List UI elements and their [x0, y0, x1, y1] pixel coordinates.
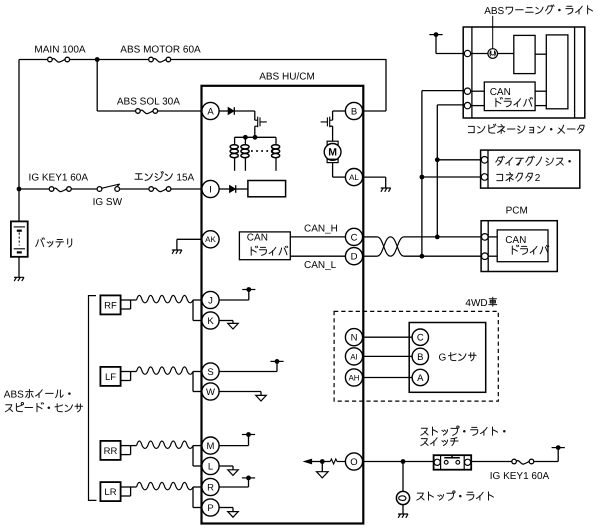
diag pin 1	[481, 157, 488, 164]
pin J of ABS HU/CM	[202, 291, 219, 308]
switch IG SW	[97, 187, 102, 192]
wire main feed top segment	[19, 59, 48, 61]
wire pin J internal feed	[219, 299, 249, 301]
wire diode to regulator	[236, 188, 248, 190]
svg-text:G: G	[439, 352, 447, 363]
wire RR coiled harness	[137, 441, 193, 448]
svg-text:AK: AK	[205, 235, 216, 244]
combination meter box	[463, 27, 585, 118]
ground arrow (pin P)	[228, 512, 239, 518]
junction CAN_H bus	[435, 235, 440, 240]
pin D of ABS HU/CM	[345, 248, 362, 265]
svg-text:LF: LF	[105, 372, 116, 383]
pin O of ABS HU/CM	[345, 453, 362, 470]
svg-text:CAN: CAN	[490, 87, 511, 98]
ground arrow (pin W)	[256, 395, 267, 401]
wire LF to pin S	[193, 371, 203, 373]
svg-text:RF: RF	[104, 300, 117, 311]
svg-text:PCM: PCM	[506, 206, 528, 217]
wire to diagnosis pin 2	[422, 176, 482, 178]
meter pin CAN2	[464, 102, 470, 108]
power feed node (pin M)	[242, 434, 255, 436]
svg-text:L: L	[208, 461, 213, 472]
svg-text:LR: LR	[104, 487, 116, 498]
svg-text:D: D	[351, 252, 358, 263]
fuse ABS SOL 30A	[140, 110, 153, 114]
svg-text:RR: RR	[104, 446, 118, 457]
wire LR branch to pin P	[192, 487, 194, 508]
wire pin K internal ground	[219, 320, 233, 322]
pin I of ABS HU/CM	[202, 180, 219, 197]
junction CAN_L bus	[420, 254, 425, 259]
transistor Q1 solenoid driver FET	[255, 117, 267, 128]
wire PCM pin1 to drv	[488, 236, 497, 238]
transistor Q2 motor driver FET	[321, 117, 333, 128]
svg-text:B: B	[351, 106, 357, 117]
meter pin CAN1	[464, 88, 470, 94]
ground chassis AL	[381, 188, 391, 192]
fuse MAIN 100A	[52, 59, 65, 63]
pin L of ABS HU/CM	[202, 457, 219, 474]
IC CAN driver (meter)	[484, 82, 535, 111]
label engine 15A	[135, 172, 173, 181]
wire AH to A	[363, 377, 413, 379]
wire RF coiled harness	[137, 295, 193, 302]
label diagnosis connector line2	[497, 173, 533, 182]
battery (batteri)	[11, 221, 28, 256]
svg-text:A: A	[207, 106, 214, 117]
junction solenoid rail / coil2	[243, 135, 248, 140]
wire LF branch to pin W	[192, 372, 194, 392]
svg-text:CAN: CAN	[505, 235, 526, 246]
pin C of ABS HU/CM	[345, 228, 362, 245]
svg-text:M: M	[328, 147, 337, 159]
wire AI to B	[363, 355, 413, 357]
wire CAN_L twisted pair	[363, 255, 377, 257]
ground chassis stop light	[398, 514, 408, 518]
power feed node (pin S)	[270, 360, 283, 362]
svg-text:N: N	[351, 333, 358, 344]
sensor RR box	[100, 441, 120, 460]
wire RF stubs	[121, 299, 137, 301]
wire CAN_H bus riser	[436, 105, 438, 237]
pin W of ABS HU/CM	[202, 383, 219, 400]
junction node ABS SOL branch	[95, 57, 100, 62]
wire solenoid rail	[235, 136, 276, 138]
svg-text:O: O	[350, 457, 357, 468]
wire switch to fuse	[471, 461, 512, 463]
junction solenoid rail / Q1	[253, 135, 258, 140]
svg-text:IG SW: IG SW	[93, 197, 123, 208]
wire pin S internal feed	[219, 371, 277, 373]
pin AI of ABS HU/CM	[345, 348, 362, 365]
wire engine fuse to pin I	[171, 188, 203, 190]
pin AH of ABS HU/CM	[345, 369, 362, 386]
meter mcu block	[546, 35, 568, 109]
4WD dashed box	[334, 311, 498, 401]
PCM pin 2	[482, 253, 489, 260]
wire MAIN to junction	[70, 59, 149, 61]
meter pin lamp	[464, 50, 470, 56]
wire pin AK to ground	[177, 238, 203, 240]
pin K of ABS HU/CM	[202, 312, 219, 329]
svg-text:B: B	[417, 352, 423, 363]
wire pin O to switch	[363, 461, 434, 463]
fuse ENGINE 15A	[154, 188, 167, 192]
sensor LF box	[100, 367, 120, 386]
svg-text:IG KEY1 60A: IG KEY1 60A	[29, 172, 89, 183]
svg-text:CAN: CAN	[247, 232, 268, 243]
svg-text:IG KEY1 60A: IG KEY1 60A	[490, 471, 550, 482]
svg-text:ABS: ABS	[484, 6, 504, 17]
label speed sensor (line2)	[5, 402, 82, 411]
wire LR stubs	[121, 486, 137, 488]
pin N of ABS HU/CM	[345, 329, 362, 346]
solenoid valve coil L2	[241, 145, 249, 149]
wire coil1 drop	[234, 137, 236, 142]
wire coil2 drop	[244, 137, 246, 142]
wire meter pin1 to CAN drv	[471, 90, 485, 92]
wire fuse to feed	[534, 461, 558, 463]
svg-text:S: S	[207, 367, 213, 378]
junction diag CAN_H	[435, 157, 440, 162]
wire pin I to diode	[219, 188, 230, 190]
power feed node (pin J)	[242, 289, 255, 291]
svg-text:AI: AI	[350, 352, 358, 361]
wire block to mcu	[535, 53, 546, 55]
svg-text:R: R	[207, 482, 214, 493]
junction stop light branch	[401, 459, 406, 464]
wire LR to pin R	[193, 486, 203, 488]
wire CAN_H twisted pair	[363, 236, 377, 238]
pin S of ABS HU/CM	[202, 363, 219, 380]
diagnosis connector box	[481, 150, 580, 188]
ground arrow O-left	[317, 472, 329, 478]
ECU box ABS HU/CM	[202, 86, 364, 524]
ground arrow (pin L)	[228, 470, 239, 476]
fuse IG KEY1 60A	[54, 188, 67, 192]
svg-text:ABS MOTOR 60A: ABS MOTOR 60A	[120, 45, 201, 56]
diode D1 (pin A)	[228, 108, 234, 115]
junction O-left ground	[320, 459, 325, 464]
svg-text:C: C	[417, 333, 424, 344]
wire RF to pin J	[193, 299, 203, 301]
ground chassis AK	[172, 250, 182, 254]
svg-text:A: A	[417, 373, 424, 384]
svg-text:W: W	[206, 387, 215, 398]
wire RR to pin M	[193, 445, 203, 447]
label diagnosis connector line1	[496, 156, 571, 165]
G sensor pin C	[412, 329, 428, 345]
wire CAN driver to pin C	[290, 236, 345, 238]
wire lamp to resistor block	[497, 53, 513, 55]
wire LR coiled harness	[137, 482, 193, 489]
svg-text:AH: AH	[348, 373, 359, 382]
svg-text:P: P	[207, 503, 213, 514]
sensor RF box	[100, 295, 120, 314]
svg-text:ABS SOL 30A: ABS SOL 30A	[117, 96, 180, 107]
wire CAN drv to mcu 1	[535, 90, 546, 92]
pin AL of ABS HU/CM	[345, 169, 362, 186]
wire motor to pin AL	[332, 163, 334, 178]
wire pin B to FET Q2	[333, 110, 346, 112]
svg-text:I: I	[209, 184, 212, 195]
motor M pump	[327, 141, 338, 144]
PCM box	[481, 221, 557, 272]
svg-text:J: J	[208, 295, 213, 306]
wire pin R internal feed	[219, 486, 248, 488]
wire pin L internal ground	[219, 465, 233, 467]
fuse ABS MOTOR 60A	[153, 59, 166, 63]
PCM pin 1	[482, 234, 489, 241]
fuse IG KEY1 60A (stop)	[516, 461, 529, 465]
ground arrow (pin K)	[228, 323, 239, 329]
wire ABS SOL fuse to pin A	[158, 110, 203, 112]
pin M of ABS HU/CM	[202, 437, 219, 454]
wire meter feed	[436, 53, 464, 55]
pin AK of ABS HU/CM	[202, 231, 219, 248]
wire ABS MOTOR 60A to pin B feed	[171, 59, 386, 61]
wire diode to FET Q1	[234, 110, 255, 112]
arrow to other system	[304, 459, 311, 463]
wire CAN drv to mcu 2	[535, 105, 546, 107]
wire stop light drop	[402, 462, 404, 492]
svg-text:4WD: 4WD	[465, 298, 487, 309]
noise filter zigzag	[330, 459, 337, 464]
wire RR stubs	[121, 445, 137, 447]
wire IG SW to engine fuse	[120, 188, 149, 190]
G sensor pin A	[412, 369, 428, 385]
label stop light switch line1	[421, 426, 506, 435]
diag pin 2	[481, 174, 488, 181]
wire LF stubs	[121, 371, 137, 373]
svg-text:CAN_H: CAN_H	[304, 223, 338, 234]
wire ABS SOL branch down	[96, 60, 98, 112]
label driver (meter)	[496, 98, 533, 107]
svg-text:ABS HU/CM: ABS HU/CM	[259, 72, 315, 83]
pin A of ABS HU/CM	[202, 102, 219, 119]
switch stop light	[434, 455, 472, 470]
wire pin W internal ground	[219, 391, 261, 393]
junction node battery/IG KEY1	[17, 187, 22, 192]
label combination meter	[468, 124, 584, 133]
wire PCM pin2 to drv	[488, 255, 497, 257]
wire coil3 drop	[275, 137, 277, 142]
wire battery to ground	[18, 257, 20, 278]
diode D2 (pin I)	[230, 186, 236, 193]
bracket sensor group	[89, 296, 97, 501]
wire RF branch to pin K	[192, 300, 194, 321]
lamp ABS warning	[488, 49, 498, 59]
label stop light	[417, 491, 494, 500]
wire IG KEY1 feed	[19, 188, 49, 190]
svg-text:K: K	[207, 316, 214, 327]
wire O-left ground drop	[321, 462, 323, 472]
svg-text:C: C	[351, 232, 358, 243]
wire lamp to ground	[402, 505, 404, 514]
power feed node (pin R)	[242, 477, 255, 479]
wire to diagnosis pin 1	[437, 159, 481, 161]
wire RR branch to pin L	[192, 446, 194, 466]
label driver (ABS)	[251, 246, 287, 255]
solenoid valve coil L1	[230, 145, 238, 149]
battery B+ vertical wire	[18, 60, 20, 222]
wire pin AL to ground	[363, 176, 386, 178]
lamp stop light	[396, 491, 409, 504]
svg-text:MAIN 100A: MAIN 100A	[34, 45, 85, 56]
svg-text:AL: AL	[349, 173, 359, 182]
wire meter lamp pin to lamp	[471, 53, 488, 55]
G sensor pin B	[412, 348, 428, 364]
wire fuse to IG SW	[71, 188, 97, 190]
sensor LR box	[100, 482, 120, 501]
wire CAN driver to pin D	[290, 255, 345, 257]
wire N to C	[363, 336, 413, 338]
svg-text:2: 2	[535, 173, 541, 184]
ellipsis dots between coils	[251, 150, 253, 152]
pin R of ABS HU/CM	[202, 478, 219, 495]
G sensor box	[409, 323, 486, 393]
svg-text:15A: 15A	[176, 172, 194, 183]
IC CAN driver (ABS)	[239, 232, 290, 260]
wire pin M internal feed	[219, 445, 248, 447]
wire pin P internal ground	[219, 507, 233, 509]
wire LF coiled harness	[137, 367, 193, 374]
wire meter pin2 to CAN drv	[471, 105, 485, 107]
pin B of ABS HU/CM	[345, 102, 362, 119]
IC CAN driver (PCM)	[497, 230, 548, 262]
wire Q2 source to motor	[330, 125, 333, 127]
wire CAN_L bus riser	[421, 91, 423, 257]
solenoid valve coil L3	[272, 145, 280, 149]
regulator block	[248, 181, 286, 197]
svg-text:CAN_L: CAN_L	[304, 260, 337, 271]
ground chassis battery	[14, 277, 24, 281]
power feed node meter	[429, 34, 442, 36]
leader line warning light	[492, 16, 494, 49]
junction diag CAN_L	[420, 175, 425, 180]
label stop light switch line2	[421, 438, 458, 446]
meter internal block	[514, 35, 535, 73]
svg-text:M: M	[207, 441, 215, 452]
label driver (PCM)	[512, 245, 549, 254]
power feed node stop circuit	[552, 447, 565, 449]
wire pin A to diode	[219, 110, 228, 112]
label battery	[36, 238, 72, 247]
pin P of ABS HU/CM	[202, 499, 219, 516]
wire Q1 source to solenoid rail	[254, 126, 256, 137]
svg-text:ABS: ABS	[4, 389, 24, 400]
